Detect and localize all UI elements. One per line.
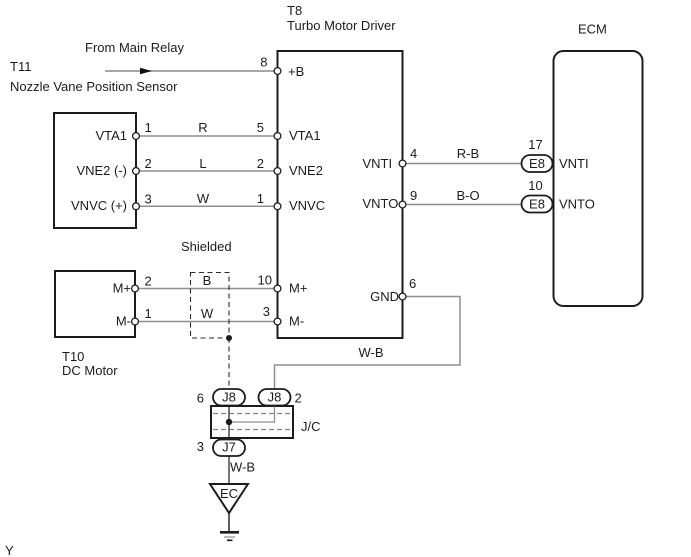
svg-text:VTA1: VTA1 — [289, 128, 321, 143]
svg-text:J7: J7 — [222, 439, 236, 454]
svg-text:4: 4 — [410, 146, 417, 161]
svg-text:10: 10 — [528, 178, 542, 193]
svg-text:L: L — [199, 156, 206, 171]
svg-text:J/C: J/C — [301, 419, 321, 434]
svg-text:6: 6 — [409, 276, 416, 291]
svg-text:VNVC (+): VNVC (+) — [71, 198, 127, 213]
svg-text:1: 1 — [145, 306, 152, 321]
svg-text:M-: M- — [289, 314, 304, 329]
svg-text:2: 2 — [145, 156, 152, 171]
svg-text:R-B: R-B — [457, 146, 479, 161]
svg-text:From Main Relay: From Main Relay — [85, 40, 184, 55]
svg-text:VNTO: VNTO — [363, 196, 399, 211]
svg-text:VNE2: VNE2 — [289, 163, 323, 178]
svg-text:M+: M+ — [113, 281, 131, 296]
svg-text:W-B: W-B — [230, 460, 255, 475]
svg-text:8: 8 — [260, 55, 267, 70]
svg-text:Turbo Motor Driver: Turbo Motor Driver — [287, 18, 396, 33]
svg-text:VNVC: VNVC — [289, 198, 325, 213]
svg-text:EC: EC — [220, 486, 238, 501]
svg-text:Y: Y — [5, 543, 14, 557]
svg-text:M-: M- — [116, 314, 131, 329]
svg-text:3: 3 — [197, 439, 204, 454]
svg-text:VNTO: VNTO — [559, 197, 595, 212]
svg-text:VTA1: VTA1 — [95, 128, 127, 143]
svg-text:6: 6 — [197, 391, 204, 406]
svg-text:M+: M+ — [289, 281, 307, 296]
svg-text:10: 10 — [258, 273, 272, 288]
svg-text:DC Motor: DC Motor — [62, 363, 118, 378]
svg-text:Nozzle Vane Position Sensor: Nozzle Vane Position Sensor — [10, 79, 178, 94]
svg-text:J8: J8 — [268, 390, 282, 405]
svg-text:W: W — [197, 191, 210, 206]
svg-text:9: 9 — [410, 188, 417, 203]
svg-text:+B: +B — [288, 64, 304, 79]
svg-text:Shielded: Shielded — [181, 239, 232, 254]
svg-text:VNE2 (-): VNE2 (-) — [76, 163, 127, 178]
svg-text:2: 2 — [145, 274, 152, 289]
svg-text:3: 3 — [263, 304, 270, 319]
svg-text:VNTI: VNTI — [363, 156, 393, 171]
svg-text:J8: J8 — [222, 390, 236, 405]
svg-text:T10: T10 — [62, 349, 84, 364]
svg-text:T11: T11 — [10, 59, 31, 74]
svg-text:W-B: W-B — [358, 345, 383, 360]
svg-text:3: 3 — [145, 192, 152, 207]
svg-text:5: 5 — [257, 120, 264, 135]
svg-text:2: 2 — [257, 156, 264, 171]
svg-text:17: 17 — [528, 137, 542, 152]
svg-text:B-O: B-O — [456, 188, 479, 203]
svg-text:W: W — [201, 306, 214, 321]
svg-text:T8: T8 — [287, 3, 302, 18]
svg-text:1: 1 — [145, 120, 152, 135]
svg-text:E8: E8 — [529, 196, 545, 211]
svg-text:1: 1 — [257, 191, 264, 206]
svg-text:2: 2 — [295, 391, 302, 406]
svg-text:B: B — [203, 273, 212, 288]
svg-text:ECM: ECM — [578, 22, 607, 37]
svg-text:VNTI: VNTI — [559, 156, 589, 171]
svg-text:GND: GND — [370, 289, 399, 304]
svg-text:R: R — [198, 120, 207, 135]
svg-text:E8: E8 — [529, 156, 545, 171]
